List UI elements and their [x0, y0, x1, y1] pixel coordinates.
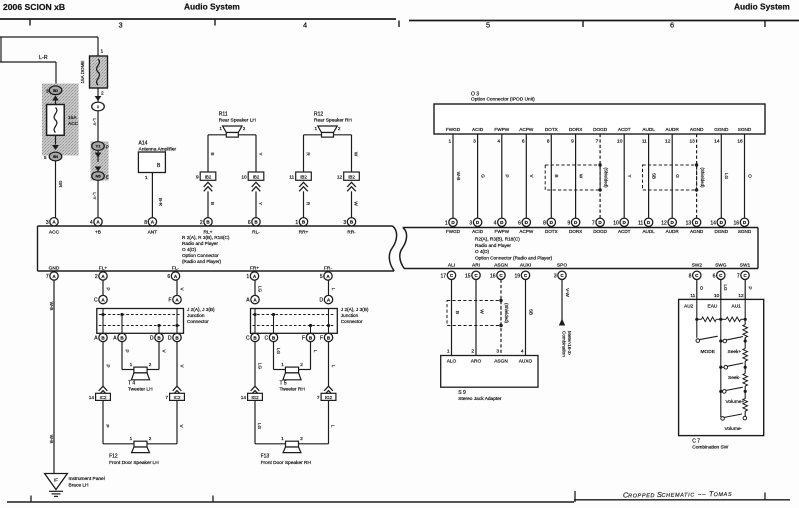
svg-text:J 2(A), J 3(B): J 2(A), J 3(B) [341, 307, 369, 312]
svg-text:Seek+: Seek+ [728, 349, 742, 355]
svg-text:Stereo Jack Adapter: Stereo Jack Adapter [458, 396, 502, 402]
svg-text:12: 12 [661, 220, 667, 226]
svg-text:ALI: ALI [448, 262, 455, 268]
svg-text:1: 1 [315, 126, 318, 131]
svg-text:SPO: SPO [557, 262, 567, 268]
svg-text:13: 13 [686, 220, 692, 226]
svg-text:2: 2 [149, 362, 152, 367]
svg-text:R12: R12 [314, 112, 323, 118]
svg-text:GGND: GGND [714, 127, 729, 132]
svg-text:DOGD: DOGD [593, 229, 607, 234]
svg-text:FWGD: FWGD [446, 127, 461, 132]
svg-text:16: 16 [737, 139, 743, 145]
svg-text:R11: R11 [219, 112, 228, 118]
svg-text:IB2: IB2 [253, 175, 260, 180]
svg-text:IG2: IG2 [251, 395, 259, 400]
svg-text:G: G [675, 174, 680, 178]
svg-text:F12: F12 [109, 454, 118, 460]
svg-text:1: 1 [246, 274, 249, 280]
svg-text:SB: SB [651, 173, 656, 179]
svg-text:FWGD: FWGD [446, 229, 461, 234]
svg-text:P: P [124, 349, 129, 352]
svg-text:4: 4 [497, 139, 500, 145]
svg-text:O 3: O 3 [471, 92, 479, 98]
svg-text:Connector: Connector [341, 319, 363, 324]
svg-text:AU2: AU2 [684, 304, 694, 310]
svg-text:11: 11 [642, 139, 647, 145]
svg-text:P: P [105, 287, 110, 290]
svg-text:Junction: Junction [187, 313, 205, 318]
svg-text:10: 10 [613, 220, 619, 226]
svg-text:1: 1 [101, 49, 104, 55]
svg-text:9: 9 [196, 175, 199, 181]
svg-text:L-R: L-R [39, 55, 48, 61]
svg-text:1: 1 [145, 175, 148, 180]
svg-text:LG: LG [724, 173, 729, 180]
svg-text:3: 3 [46, 89, 49, 94]
svg-text:C: C [246, 336, 250, 342]
svg-text:B: B [455, 311, 460, 314]
svg-text:17: 17 [441, 273, 447, 279]
svg-text:Instrument Panel: Instrument Panel [69, 476, 105, 482]
svg-text:3: 3 [469, 220, 472, 226]
svg-text:DOTX: DOTX [545, 127, 559, 132]
svg-text:W-B: W-B [49, 302, 54, 311]
svg-text:Option Connector (IPOD Unit): Option Connector (IPOD Unit) [471, 97, 535, 103]
svg-text:6: 6 [713, 273, 716, 279]
svg-text:14: 14 [241, 395, 247, 401]
svg-text:DORX: DORX [569, 229, 582, 234]
svg-text:Combination: Combination [561, 331, 566, 357]
svg-text:IB2: IB2 [205, 175, 212, 180]
svg-text:ASGN: ASGN [494, 358, 508, 364]
svg-text:W: W [578, 174, 583, 179]
svg-text:MODE: MODE [701, 349, 715, 355]
svg-text:2: 2 [471, 349, 474, 355]
svg-text:6: 6 [522, 139, 525, 145]
svg-text:G: G [480, 174, 485, 178]
svg-text:A14: A14 [139, 141, 148, 147]
svg-text:3: 3 [343, 220, 346, 226]
svg-text:ACID: ACID [472, 229, 484, 234]
svg-text:AUXO: AUXO [519, 358, 533, 364]
svg-text:V-W: V-W [565, 288, 570, 297]
svg-text:2006 SCION xB: 2006 SCION xB [3, 2, 65, 12]
svg-text:W-B: W-B [49, 435, 54, 444]
svg-text:2: 2 [300, 436, 303, 441]
svg-text:7: 7 [592, 220, 595, 226]
svg-text:D: D [150, 336, 154, 342]
svg-text:10: 10 [241, 175, 247, 181]
svg-text:7: 7 [317, 395, 320, 401]
svg-text:Rear Speaker LH: Rear Speaker LH [219, 118, 257, 124]
svg-text:6: 6 [518, 220, 521, 226]
svg-text:SW2: SW2 [692, 262, 703, 268]
svg-text:DOGD: DOGD [593, 127, 608, 132]
svg-text:AUDR: AUDR [666, 229, 680, 234]
svg-text:L-Y: L-Y [92, 192, 97, 199]
svg-text:IF: IF [54, 478, 58, 483]
svg-text:11: 11 [289, 175, 294, 181]
svg-text:ARI: ARI [472, 262, 480, 268]
svg-text:SWG: SWG [715, 262, 727, 268]
svg-text:19: 19 [515, 273, 521, 279]
svg-text:6: 6 [670, 21, 674, 30]
svg-text:AU1: AU1 [732, 304, 742, 310]
svg-text:14: 14 [714, 139, 720, 145]
svg-text:IB2: IB2 [348, 175, 355, 180]
svg-text:LG: LG [723, 284, 728, 291]
svg-text:Y: Y [258, 152, 263, 155]
svg-text:W: W [354, 152, 359, 157]
svg-text:SGND: SGND [738, 127, 752, 132]
svg-text:Seek-: Seek- [728, 375, 741, 381]
svg-text:P: P [105, 424, 110, 427]
svg-text:7: 7 [46, 274, 49, 280]
svg-text:E: E [106, 175, 109, 180]
svg-text:10: 10 [714, 293, 720, 299]
svg-text:13: 13 [689, 139, 695, 145]
svg-text:FWPW: FWPW [495, 229, 510, 234]
svg-text:8: 8 [547, 139, 550, 145]
svg-text:Rear Speaker RH: Rear Speaker RH [314, 118, 352, 124]
svg-text:(Radio and Player): (Radio and Player) [182, 259, 222, 264]
svg-text:2: 2 [200, 220, 203, 226]
svg-text:14: 14 [710, 220, 716, 226]
svg-text:8: 8 [144, 220, 147, 226]
svg-text:D: D [168, 336, 172, 342]
svg-text:Option Connector (Radio and Pl: Option Connector (Radio and Player) [475, 255, 553, 260]
svg-text:L-Y: L-Y [92, 118, 97, 125]
svg-text:L: L [331, 365, 336, 368]
svg-text:(Shielded): (Shielded) [700, 167, 705, 188]
svg-text:1: 1 [295, 220, 298, 226]
svg-text:AUDL: AUDL [642, 127, 655, 132]
svg-text:DGND: DGND [715, 229, 729, 234]
svg-text:3: 3 [496, 349, 499, 355]
svg-text:ANT: ANT [148, 230, 158, 236]
svg-text:Option Connector: Option Connector [182, 253, 219, 258]
svg-text:L: L [331, 425, 336, 428]
svg-text:B-R: B-R [158, 198, 163, 207]
svg-text:4: 4 [521, 349, 524, 355]
svg-text:1: 1 [447, 349, 450, 355]
svg-text:Y: Y [258, 202, 263, 205]
svg-text:1: 1 [445, 220, 448, 226]
svg-text:B: B [210, 152, 215, 155]
svg-text:IC2: IC2 [174, 395, 181, 400]
svg-text:P: P [505, 174, 510, 177]
svg-text:AGND: AGND [690, 229, 704, 234]
svg-text:2: 2 [149, 436, 152, 441]
svg-text:9: 9 [571, 139, 574, 145]
svg-text:Meter‹16-3›: Meter‹16-3› [567, 331, 572, 355]
svg-text:~–: ~– [698, 492, 706, 498]
svg-text:O: O [747, 174, 752, 178]
svg-text:IG2: IG2 [325, 395, 333, 400]
svg-text:B: B [210, 202, 215, 205]
svg-text:DOTX: DOTX [545, 229, 558, 234]
svg-text:P: P [748, 286, 753, 289]
svg-text:O 4(D): O 4(D) [475, 249, 490, 254]
svg-text:Audio System: Audio System [734, 2, 790, 12]
svg-text:12: 12 [665, 139, 671, 145]
svg-text:2: 2 [300, 362, 303, 367]
svg-text:7: 7 [165, 395, 168, 401]
svg-text:P: P [106, 145, 109, 150]
svg-text:FWPW: FWPW [494, 127, 509, 132]
svg-text:15A: 15A [68, 115, 77, 121]
svg-text:(Shielded): (Shielded) [504, 303, 509, 324]
svg-text:R 2(A), R 3(B), R18(C): R 2(A), R 3(B), R18(C) [182, 235, 230, 240]
svg-text:FR-: FR- [324, 266, 332, 272]
svg-text:Volume+: Volume+ [726, 399, 745, 405]
svg-text:C 7: C 7 [692, 439, 700, 445]
svg-text:LG: LG [257, 423, 262, 430]
svg-text:LG: LG [276, 348, 281, 355]
svg-text:T 4: T 4 [128, 381, 135, 387]
svg-text:Junction: Junction [341, 313, 359, 318]
svg-text:R2(A), R3(B), R18(C): R2(A), R3(B), R18(C) [475, 237, 520, 242]
svg-text:AGND: AGND [690, 127, 704, 132]
svg-text:O: O [699, 286, 704, 290]
svg-text:OMAS: OMAS [714, 492, 733, 498]
svg-text:ARO: ARO [471, 358, 482, 364]
svg-text:Volume-: Volume- [725, 426, 743, 432]
svg-text:ALO: ALO [447, 358, 457, 364]
svg-text:Front Door Speaker RH: Front Door Speaker RH [261, 460, 312, 466]
svg-text:12: 12 [738, 293, 744, 299]
svg-text:FL-: FL- [172, 266, 180, 272]
svg-text:1: 1 [281, 436, 284, 441]
svg-text:2: 2 [101, 91, 104, 97]
svg-text:Y: Y [627, 174, 632, 177]
svg-text:4: 4 [90, 220, 93, 226]
svg-text:SB: SB [528, 309, 533, 315]
svg-text:FR+: FR+ [250, 266, 259, 272]
svg-text:2: 2 [95, 274, 98, 280]
svg-text:L: L [331, 288, 336, 291]
svg-text:D: D [319, 298, 323, 304]
svg-text:ACC: ACC [49, 230, 60, 236]
svg-text:5D: 5D [53, 88, 58, 93]
svg-text:ASGN: ASGN [494, 262, 508, 268]
svg-text:ACC: ACC [68, 121, 79, 127]
svg-text:ACID: ACID [472, 127, 484, 132]
svg-text:GR: GR [58, 181, 63, 189]
svg-text:+B: +B [95, 230, 101, 236]
svg-text:W: W [479, 309, 484, 314]
svg-text:O 4(D): O 4(D) [182, 247, 197, 252]
svg-text:8: 8 [689, 273, 692, 279]
svg-text:FL+: FL+ [99, 266, 108, 272]
svg-text:Tweeter RH: Tweeter RH [280, 387, 306, 393]
svg-text:IC2: IC2 [100, 395, 107, 400]
svg-text:3: 3 [554, 273, 557, 279]
svg-text:2: 2 [243, 126, 246, 131]
svg-text:IB2: IB2 [300, 175, 307, 180]
svg-text:12: 12 [337, 175, 343, 181]
svg-text:11: 11 [690, 293, 695, 299]
svg-text:5: 5 [320, 274, 323, 280]
svg-text:AUDR: AUDR [666, 127, 680, 132]
svg-text:Front Door Speaker LH: Front Door Speaker LH [109, 460, 159, 466]
svg-text:F: F [169, 298, 172, 304]
svg-text:ROPPED: ROPPED [628, 493, 655, 499]
svg-text:1: 1 [281, 362, 284, 367]
svg-text:1: 1 [219, 126, 222, 131]
svg-text:15A DOME: 15A DOME [80, 61, 85, 84]
svg-text:ACDT: ACDT [618, 229, 631, 234]
svg-text:16: 16 [490, 273, 496, 279]
svg-text:(Shielded): (Shielded) [604, 167, 609, 188]
svg-text:14: 14 [89, 395, 95, 401]
svg-text:J 2(A), J 3(B): J 2(A), J 3(B) [187, 307, 215, 312]
svg-text:6: 6 [248, 220, 251, 226]
svg-text:RL-: RL- [252, 230, 260, 236]
svg-text:AUXI: AUXI [520, 262, 531, 268]
svg-text:1: 1 [130, 362, 133, 367]
svg-text:5: 5 [486, 21, 490, 30]
svg-text:16: 16 [734, 220, 740, 226]
svg-text:Radio and Player: Radio and Player [475, 243, 511, 248]
svg-text:B: B [554, 174, 559, 177]
svg-text:Brace LH: Brace LH [69, 483, 90, 489]
svg-text:Combination SW: Combination SW [692, 444, 728, 450]
svg-text:F: F [320, 336, 323, 342]
svg-text:4: 4 [494, 220, 497, 226]
svg-text:W-B: W-B [456, 172, 461, 181]
svg-text:3: 3 [46, 220, 49, 226]
svg-text:11: 11 [638, 220, 643, 226]
svg-text:1: 1 [449, 139, 452, 145]
svg-text:N5: N5 [95, 174, 101, 179]
svg-text:LG: LG [257, 286, 262, 293]
svg-text:Tweeter LH: Tweeter LH [128, 387, 153, 393]
svg-text:ACDT: ACDT [618, 127, 631, 132]
svg-text:7: 7 [737, 273, 740, 279]
svg-text:Connector: Connector [187, 319, 209, 324]
svg-text:SGND: SGND [738, 229, 752, 234]
svg-text:3: 3 [118, 21, 122, 30]
svg-text:ACPW: ACPW [519, 127, 534, 132]
svg-text:CHEMATIC: CHEMATIC [662, 492, 695, 499]
svg-text:2: 2 [338, 126, 341, 131]
svg-text:8: 8 [543, 220, 546, 226]
svg-text:AUDL: AUDL [642, 229, 655, 234]
svg-text:5N: 5N [53, 154, 58, 159]
svg-text:LG: LG [257, 363, 262, 370]
svg-text:S 9: S 9 [458, 390, 466, 396]
svg-text:7: 7 [596, 139, 599, 145]
svg-text:9: 9 [567, 220, 570, 226]
svg-text:RR-: RR- [347, 230, 356, 236]
svg-text:DORX: DORX [569, 127, 583, 132]
svg-text:ACPW: ACPW [519, 229, 533, 234]
svg-text:C: C [264, 336, 268, 342]
svg-text:W: W [354, 201, 359, 206]
svg-text:5: 5 [44, 155, 47, 160]
svg-text:SW1: SW1 [740, 262, 751, 268]
svg-text:1: 1 [130, 436, 133, 441]
svg-text:Y1: Y1 [96, 144, 102, 149]
svg-text:L: L [313, 350, 318, 353]
svg-text:EAU: EAU [708, 304, 718, 310]
svg-text:GND: GND [49, 266, 60, 272]
svg-text:RR+: RR+ [299, 230, 309, 236]
svg-text:Audio System: Audio System [184, 2, 240, 12]
svg-text:T 5: T 5 [280, 381, 287, 387]
svg-text:15: 15 [465, 273, 471, 279]
svg-text:P: P [105, 364, 110, 367]
svg-text:6: 6 [167, 274, 170, 280]
svg-text:3: 3 [473, 139, 476, 145]
svg-text:F13: F13 [261, 454, 270, 460]
svg-text:4: 4 [303, 21, 307, 30]
svg-text:Radio and Player: Radio and Player [182, 241, 218, 246]
svg-text:10: 10 [617, 139, 623, 145]
svg-text:F: F [302, 336, 305, 342]
svg-text:C: C [94, 298, 98, 304]
